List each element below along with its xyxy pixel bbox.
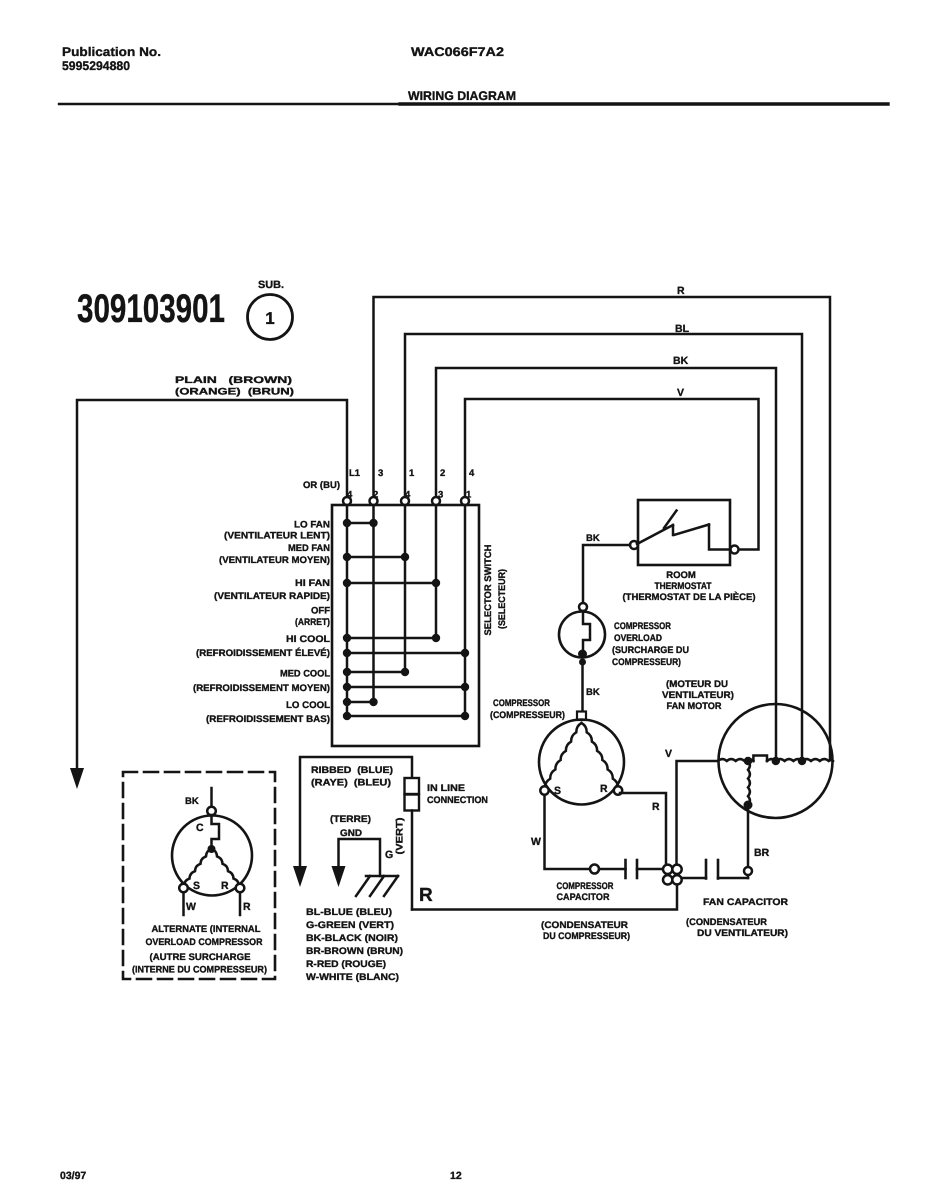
svg-text:1: 1 [265,309,274,328]
svg-text:3: 3 [438,490,443,501]
wire to alternate compressor C terminal [210,788,213,807]
svg-text:1: 1 [409,468,415,479]
footer: page 12 [450,1170,462,1182]
wire BK: selector terminal to fan motor winding [436,368,776,758]
svg-text:L1: L1 [349,468,361,479]
wire R: selector terminal 2 to fan motor right side [374,297,831,760]
svg-text:OVERLOAD: OVERLOAD [614,633,662,644]
svg-text:LO COOL: LO COOL [286,700,330,711]
svg-text:03/97: 03/97 [60,1170,86,1182]
wire V: selector terminal 4/1 to room thermostat [465,399,759,550]
svg-text:(REFROIDISSEMENT BAS): (REFROIDISSEMENT BAS) [206,714,330,725]
svg-text:3: 3 [378,468,383,479]
svg-text:C: C [196,822,204,834]
wire: selector to in-line connection (ribbed blue cord) [300,757,412,866]
label BR [754,847,770,859]
svg-text:2: 2 [373,490,378,501]
svg-text:GND: GND [340,828,362,839]
svg-text:(ORANGE) (BRUN): (ORANGE) (BRUN) [175,387,294,398]
label V [677,387,684,399]
wire capacitor to terminal cluster [637,868,663,871]
part number 309103901 [77,287,225,331]
label BK [586,533,600,544]
alternate compressor S terminal [179,884,188,893]
svg-text:(VERT): (VERT) [395,818,406,855]
label FAN CAPACITOR (CONDENSATEUR DU VENTILATEUR) [686,897,788,939]
selector terminal circles L1,3-2,1-4,2-3,4-1 [343,497,469,505]
svg-text:BR: BR [754,847,770,859]
labels S and R [193,880,229,892]
label OR (BU) at L1 [303,480,340,491]
svg-text:MED COOL: MED COOL [280,669,330,680]
svg-text:BK: BK [185,796,199,807]
selector position labels [193,520,330,726]
svg-text:2: 2 [440,468,445,479]
fan motor body circle [719,704,833,818]
svg-text:BK-BLACK (NOIR): BK-BLACK (NOIR) [306,933,398,944]
svg-text:FAN CAPACITOR: FAN CAPACITOR [703,897,788,908]
label C [196,822,204,834]
compressor overload body circle [559,612,605,658]
svg-text:DU COMPRESSEUR): DU COMPRESSEUR) [543,931,630,942]
wire: green ground lead with arrow [332,839,381,887]
svg-text:ROOM: ROOM [666,570,696,581]
svg-text:OVERLOAD COMPRESSOR: OVERLOAD COMPRESSOR [146,937,263,948]
label (TERRE) GND [330,814,371,839]
alternate compressor C terminal [207,807,216,816]
fan capacitor terminal [744,867,752,875]
svg-text:(INTERNE DU COMPRESSEUR): (INTERNE DU COMPRESSEUR) [132,965,267,976]
footer: date 03/97 [60,1170,86,1182]
svg-text:FAN MOTOR: FAN MOTOR [667,701,722,712]
svg-text:(VENTILATEUR LENT): (VENTILATEUR LENT) [224,531,330,542]
svg-text:W-WHITE (BLANC): W-WHITE (BLANC) [306,972,399,983]
header: Publication No. label [62,45,161,59]
room thermostat fixed contact [709,525,731,550]
label BK [586,687,600,698]
room thermostat switch arm [637,511,709,545]
svg-text:BL: BL [675,323,690,335]
svg-text:(COMPRESSEUR): (COMPRESSEUR) [490,710,565,721]
svg-text:R: R [419,885,433,906]
svg-text:WIRING DIAGRAM: WIRING DIAGRAM [408,89,516,103]
svg-text:(CONDENSATEUR: (CONDENSATEUR [686,917,767,928]
fan motor auxiliary winding (vertical) [748,761,750,805]
selector contact rows with junction dots [343,519,469,720]
wire W: compressor S to compressor capacitor [545,795,591,869]
label G [385,849,393,861]
label V [665,748,672,760]
svg-text:THERMOSTAT: THERMOSTAT [655,581,712,592]
svg-text:OFF: OFF [311,606,330,617]
svg-text:RIBBED (BLUE): RIBBED (BLUE) [311,765,393,776]
header: publication number 5995294880 [62,59,130,73]
wire: in-line connection down to R bus [411,811,414,910]
alternate compressor R terminal [236,884,245,893]
alternate compressor dashed enclosure [123,772,275,979]
svg-text:IN LINE: IN LINE [427,783,465,794]
wire: line cord plain/brown from selector L1 down-left with arrow [70,400,347,789]
compressor overload bimetal element [583,611,590,650]
header rule [59,103,888,105]
fan motor main winding [718,759,753,761]
room thermostat box [638,500,730,565]
label W [531,836,541,848]
svg-text:5995294880: 5995294880 [62,59,130,73]
svg-text:Publication No.: Publication No. [62,45,161,59]
svg-text:4: 4 [405,490,411,501]
compressor overload top terminal [579,603,587,611]
svg-text:PLAIN (BROWN): PLAIN (BROWN) [175,375,292,386]
room thermostat right terminal [731,546,739,554]
svg-text:12: 12 [450,1170,462,1182]
label BL [675,323,690,335]
svg-text:BK: BK [586,687,600,698]
label ALTERNATE (INTERNAL OVERLOAD) COMPRESSOR [132,924,267,976]
svg-text:HI COOL: HI COOL [286,634,330,645]
svg-text:(SURCHARGE DU: (SURCHARGE DU [612,645,689,656]
svg-text:VENTILATEUR): VENTILATEUR) [662,690,734,701]
svg-text:(AUTRE SURCHARGE: (AUTRE SURCHARGE [150,952,251,963]
compressor capacitor plates [626,860,638,878]
selector terminal pin labels second row 4 2 4 3 1 [347,490,472,501]
svg-text:DU VENTILATEUR): DU VENTILATEUR) [697,928,788,939]
stub wires from S and R [184,892,241,915]
label (VERT) vertical [395,818,406,855]
svg-text:1: 1 [466,490,472,501]
selector internal column wires [347,505,465,716]
label RIBBED (BLUE) / (RAYE) (BLEU) [311,765,393,789]
selector terminal pin labels top row L1 3 1 2 4 [349,468,475,479]
labels W and R [186,901,251,913]
svg-text:V: V [677,387,684,399]
svg-text:V: V [665,748,672,760]
arrowhead ribbed cord [293,866,307,887]
label R [677,285,685,297]
room thermostat left terminal [630,541,638,549]
svg-text:SUB.: SUB. [258,279,284,291]
SUB. label [258,279,284,291]
svg-text:OR (BU): OR (BU) [303,480,340,491]
svg-text:G-GREEN (VERT): G-GREEN (VERT) [306,920,394,931]
in-line connection symbol [405,778,420,811]
label SELECTOR SWITCH (SELECTEUR) vertical [483,544,508,635]
svg-text:(ARRET): (ARRET) [295,617,330,628]
compressor capacitor terminal [590,865,599,874]
label (MOTEUR DU VENTILATEUR) FAN MOTOR [662,679,734,712]
alternate compressor run winding [212,849,240,886]
svg-text:COMPRESSOR: COMPRESSOR [493,698,550,709]
wire cluster to fan capacitor plate [682,877,706,880]
svg-text:BL-BLUE (BLEU): BL-BLUE (BLEU) [306,907,392,918]
label ROOM THERMOSTAT (THERMOSTAT DE LA PIECE) [623,570,756,603]
alternate compressor start winding [184,849,212,886]
svg-text:(VENTILATEUR MOYEN): (VENTILATEUR MOYEN) [219,555,330,566]
svg-text:ALTERNATE (INTERNAL: ALTERNATE (INTERNAL [152,924,261,935]
label COMPRESSOR OVERLOAD (SURCHARGE DU COMPRESSEUR) [612,621,689,668]
wire BK: overload to compressor [581,666,584,711]
junction dot [208,845,216,853]
svg-text:WAC066F7A2: WAC066F7A2 [411,45,504,59]
wire BK: thermostat to compressor overload [583,545,630,603]
alternate compressor body circle [172,816,252,896]
header: model WAC066F7A2 [411,45,504,59]
compressor R terminal [614,786,622,794]
label (CONDENSATEUR DU COMPRESSEUR) [541,920,630,942]
compressor start winding [545,723,582,788]
SUB revision circle 1 [248,295,293,340]
labels S and R [554,783,608,797]
svg-text:R: R [221,880,229,892]
svg-text:(REFROIDISSEMENT ÉLEVÉ): (REFROIDISSEMENT ÉLEVÉ) [196,647,330,659]
fan motor winding junction dots [744,757,806,765]
svg-text:S: S [193,880,200,892]
svg-text:S: S [554,785,561,797]
svg-text:R: R [600,783,608,795]
svg-text:R-RED (ROUGE): R-RED (ROUGE) [306,959,386,970]
svg-text:(THERMOSTAT DE LA PIÈCE): (THERMOSTAT DE LA PIÈCE) [623,591,756,603]
svg-text:SELECTOR SWITCH: SELECTOR SWITCH [483,544,494,635]
svg-text:CAPACITOR: CAPACITOR [557,892,610,903]
svg-text:R: R [677,285,685,297]
alternate compressor internal overload element [212,815,220,846]
fan capacitor plates [706,860,718,879]
svg-text:COMPRESSEUR): COMPRESSEUR) [612,657,681,668]
svg-text:W: W [186,901,196,913]
compressor S terminal [540,786,548,794]
svg-text:(REFROIDISSEMENT MOYEN): (REFROIDISSEMENT MOYEN) [193,683,330,694]
wire R: compressor R terminal to terminal cluster [620,793,666,864]
svg-text:HI FAN: HI FAN [295,578,330,589]
svg-text:R: R [652,801,660,813]
svg-text:(MOTEUR DU: (MOTEUR DU [666,679,728,690]
svg-text:BK: BK [586,533,600,544]
svg-text:309103901: 309103901 [77,287,225,331]
svg-text:W: W [531,836,541,848]
svg-text:LO FAN: LO FAN [294,520,330,531]
label IN LINE CONNECTION [427,783,488,806]
compressor top terminal square [577,712,586,721]
svg-text:CONNECTION: CONNECTION [427,795,488,806]
terminal cluster (4 connector circles) [663,865,682,885]
compressor body circle [539,720,624,805]
svg-text:COMPRESSOR: COMPRESSOR [557,881,614,892]
compressor run winding [582,723,619,788]
selector switch box [332,505,479,746]
wire BR: fan motor aux winding to fan capacitor [747,805,750,878]
svg-text:(SELECTEUR): (SELECTEUR) [497,569,508,629]
label R [652,801,660,813]
svg-text:BK: BK [673,355,689,367]
header: WIRING DIAGRAM title [408,89,516,103]
svg-text:(VENTILATEUR RAPIDE): (VENTILATEUR RAPIDE) [214,591,330,602]
svg-text:BR-BROWN (BRUN): BR-BROWN (BRUN) [306,946,403,957]
wire V: fan motor to terminal cluster [677,761,719,865]
wire R bus: terminal cluster to in-line connection [412,885,677,910]
label COMPRESSOR (COMPRESSEUR) [490,698,565,721]
junction dot aux winding [744,801,753,810]
compressor overload bottom junction dots [578,650,587,666]
svg-text:(CONDENSATEUR: (CONDENSATEUR [541,920,628,931]
wire plate to terminal [718,877,748,880]
label R (large) [419,885,433,906]
wire color legend [306,907,403,983]
svg-text:G: G [385,849,393,861]
label COMPRESSOR CAPACITOR [557,881,614,903]
fan motor winding step [753,756,767,762]
svg-text:MED FAN: MED FAN [288,543,330,554]
label BK [185,796,199,807]
label BK [673,355,689,367]
svg-text:(TERRE): (TERRE) [330,814,371,825]
svg-text:4: 4 [469,468,475,479]
wire BL: selector terminal 1/4 to fan motor winding [405,334,802,758]
svg-text:R: R [243,901,251,913]
svg-text:4: 4 [347,490,353,501]
chassis ground symbol [356,876,398,896]
label: PLAIN (BROWN) line cord [175,375,294,398]
wire to capacitor plate [599,868,626,871]
svg-text:COMPRESSOR: COMPRESSOR [614,621,671,632]
svg-text:(RAYE) (BLEU): (RAYE) (BLEU) [311,778,391,789]
